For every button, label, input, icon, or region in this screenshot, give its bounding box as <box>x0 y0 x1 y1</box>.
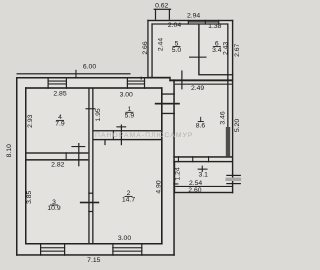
svg-text:2.93: 2.93 <box>27 114 34 127</box>
dimension cross at 4|3 wall <box>78 143 79 166</box>
room 6 bottom line <box>198 74 233 75</box>
dimension cross at 1|2 wall <box>121 125 122 146</box>
wing top wall inner line <box>151 23 228 24</box>
wing top window right jamb <box>218 20 219 25</box>
room 8.6 bottom wall lower line <box>173 161 232 162</box>
svg-text:3.1: 3.1 <box>198 172 208 179</box>
room interiors fill <box>17 78 174 255</box>
chimney bump right line <box>169 9 170 20</box>
main house right wall outer line <box>173 79 175 255</box>
porch bottom line <box>174 192 233 193</box>
room 1 fraction bar <box>125 111 133 113</box>
3.1 marker horizontal <box>198 169 208 170</box>
main house left wall outer line <box>16 77 18 256</box>
jamb in 1|2 wall <box>113 130 114 140</box>
top wall window W2 right jamb <box>144 77 145 89</box>
wing left wall outer line <box>147 20 148 78</box>
jambs in 8.6 bottom wall <box>178 156 179 162</box>
main house top wall outer line <box>16 77 170 79</box>
svg-text:5.9: 5.9 <box>125 113 135 120</box>
wing right wall outer line <box>232 20 233 194</box>
svg-text:2.60: 2.60 <box>188 187 201 194</box>
svg-text:8.6: 8.6 <box>196 122 206 129</box>
svg-text:2.94: 2.94 <box>187 12 200 19</box>
svg-text:3.00: 3.00 <box>118 235 131 242</box>
room 6 fraction bar <box>213 46 221 48</box>
step connector at x169 <box>169 77 170 82</box>
svg-text:3.46: 3.46 <box>220 111 227 124</box>
svg-text:14.7: 14.7 <box>122 197 135 204</box>
wing right wall inner line <box>227 23 228 127</box>
bottom wall window W3 mid lines <box>40 247 65 248</box>
interior wall rooms 1|2 lower line <box>94 139 162 140</box>
door symbol in 3|2 wall lower rung <box>88 211 93 212</box>
svg-text:1.24: 1.24 <box>175 167 182 180</box>
interior wall rooms 1|2 upper line <box>94 130 162 131</box>
top wall window W2 mid lines <box>127 81 145 82</box>
main house left wall inner line <box>25 87 27 244</box>
wing top window left jamb <box>188 20 189 25</box>
bottom wall window W4 left jamb <box>112 243 113 256</box>
watermark smudge at porch right <box>226 178 242 181</box>
svg-text:5.0: 5.0 <box>172 47 182 54</box>
2.49 dimension line <box>175 84 232 85</box>
right wall window glazing line <box>155 103 180 105</box>
wing top window mid jamb <box>205 20 206 25</box>
svg-text:4.90: 4.90 <box>156 180 163 193</box>
svg-text:8.10: 8.10 <box>6 144 13 157</box>
top wall window W1 left jamb <box>48 77 49 89</box>
porch left line <box>174 161 175 193</box>
jamb stub below 1|2 wall <box>104 140 105 146</box>
chimney bump top line <box>154 9 172 10</box>
tick on 6.00 dim line <box>75 70 76 79</box>
room 8.6 top wall thick line <box>169 79 233 81</box>
bottom wall window W3 left jamb <box>40 243 41 256</box>
room 4 fraction bar <box>56 119 64 121</box>
main house bottom wall outer line <box>16 254 175 256</box>
tick across 5|6 wall <box>189 57 207 58</box>
top wall window W1 mid lines <box>48 81 68 82</box>
bottom wall window W4 right jamb <box>141 243 142 256</box>
right wall window lower rung <box>161 113 175 114</box>
svg-text:7.9: 7.9 <box>55 121 65 128</box>
room 2 fraction bar <box>125 195 133 197</box>
tick across 4|1 wall for 1.95 <box>86 108 96 109</box>
main house right wall inner line <box>161 87 163 244</box>
bottom wall window W3 right jamb <box>64 243 65 256</box>
svg-text:2.49: 2.49 <box>191 85 204 92</box>
porch right wall tick upper <box>226 175 241 176</box>
svg-text:7.15: 7.15 <box>87 257 100 264</box>
door symbol in 3|2 wall upper rung <box>88 193 93 194</box>
wall between rooms 5 and 6 <box>198 24 199 74</box>
svg-text:ПАНОРАМА-ПЛЮСАМУР: ПАНОРАМА-ПЛЮСАМУР <box>95 132 193 139</box>
chimney bump left line <box>155 9 156 20</box>
bottom wall window W4 mid lines <box>112 247 142 248</box>
svg-text:10.9: 10.9 <box>47 205 60 212</box>
2.54 dim left tick <box>173 183 178 184</box>
svg-text:2.82: 2.82 <box>51 161 64 168</box>
svg-text:2.44: 2.44 <box>157 38 164 51</box>
6.00 dimension line <box>17 73 131 74</box>
main house top wall inner line <box>25 87 163 89</box>
wing left wall inner line <box>151 23 152 77</box>
tick below top wall <box>141 77 142 80</box>
svg-text:3.85: 3.85 <box>26 190 33 203</box>
main house bottom wall inner line <box>25 243 163 245</box>
svg-text:2.43: 2.43 <box>223 42 230 55</box>
svg-text:2.85: 2.85 <box>53 90 66 97</box>
right wall window upper rung <box>161 93 175 94</box>
top wall window W1 right jamb <box>66 77 67 89</box>
interior center wall line a (rooms 4/1 and 3/2) <box>88 89 89 244</box>
jamb in 4|3 wall <box>66 152 67 160</box>
wing top wall window mid line <box>188 21 219 22</box>
room 8.6 bottom wall upper line <box>173 156 232 158</box>
interior wall rooms 4|3 lower line <box>26 159 88 161</box>
2.49 extension line <box>181 70 182 89</box>
3.1 marker vertical <box>202 166 203 172</box>
svg-text:0.62: 0.62 <box>155 3 168 10</box>
stove against 8.6 right wall <box>226 127 230 156</box>
top wall window W2 left jamb <box>127 77 128 89</box>
room 5 bottom line <box>147 77 170 78</box>
svg-text:3.00: 3.00 <box>120 92 133 99</box>
svg-text:2.67: 2.67 <box>234 43 241 56</box>
svg-text:6.00: 6.00 <box>83 63 96 70</box>
svg-text:3.4: 3.4 <box>212 47 222 54</box>
svg-text:5.20: 5.20 <box>234 119 241 132</box>
svg-text:1.38: 1.38 <box>208 23 221 30</box>
2.54/2.60 dimension line <box>175 186 232 187</box>
door symbol in 3|2 wall glazing line <box>80 202 99 204</box>
porch right wall tick lower <box>226 183 241 184</box>
wing top wall outer line <box>147 20 233 21</box>
svg-text:2.04: 2.04 <box>168 22 181 29</box>
8.6 symbol <box>200 117 202 122</box>
room 3 fraction bar <box>50 204 58 206</box>
svg-text:1.95: 1.95 <box>95 108 102 121</box>
svg-text:2.66: 2.66 <box>142 41 149 54</box>
room 5 fraction bar <box>173 46 181 48</box>
interior center wall line b <box>92 89 93 244</box>
interior wall rooms 4|3 upper line <box>26 152 88 153</box>
